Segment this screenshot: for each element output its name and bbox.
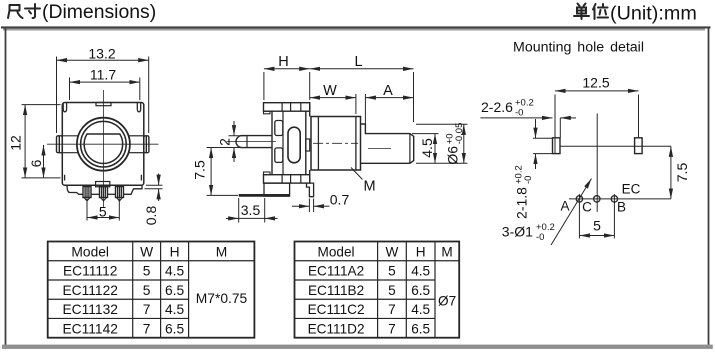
svg-text:4.5: 4.5 <box>411 264 430 279</box>
svg-text:-0: -0 <box>515 108 523 119</box>
svg-text:5: 5 <box>388 264 396 279</box>
svg-text:4.5: 4.5 <box>419 138 435 158</box>
svg-text:M: M <box>363 179 375 195</box>
svg-text:7: 7 <box>143 321 151 336</box>
svg-text:EC111D2: EC111D2 <box>308 321 365 336</box>
svg-text:6: 6 <box>28 159 44 167</box>
svg-text:4.5: 4.5 <box>165 264 185 279</box>
svg-text:(Dimensions): (Dimensions) <box>42 1 156 23</box>
svg-text:4.5: 4.5 <box>411 302 430 317</box>
svg-text:L: L <box>354 54 362 70</box>
svg-text:5: 5 <box>143 283 151 298</box>
svg-text:C: C <box>582 200 592 215</box>
svg-text:7: 7 <box>388 321 396 336</box>
svg-text:7.5: 7.5 <box>674 163 690 183</box>
svg-text:13.2: 13.2 <box>88 45 115 61</box>
svg-text:W: W <box>323 83 337 99</box>
svg-text:EC11122: EC11122 <box>62 283 117 298</box>
svg-text:-0: -0 <box>536 232 544 243</box>
svg-text:3-Ø1: 3-Ø1 <box>502 224 533 240</box>
svg-text:7: 7 <box>143 302 151 317</box>
svg-text:W: W <box>386 244 399 259</box>
svg-text:EC111A2: EC111A2 <box>308 264 364 279</box>
svg-text:EC111C2: EC111C2 <box>308 302 365 317</box>
svg-text:5: 5 <box>388 283 396 298</box>
svg-text:A: A <box>560 199 569 214</box>
svg-text:(Unit):mm: (Unit):mm <box>610 2 697 24</box>
svg-text:Ø6: Ø6 <box>445 146 461 165</box>
svg-text:5: 5 <box>593 218 601 234</box>
svg-text:M: M <box>441 244 452 259</box>
svg-text:12.5: 12.5 <box>582 75 609 91</box>
svg-text:-0: -0 <box>523 176 534 184</box>
svg-text:2-1.8: 2-1.8 <box>514 187 530 219</box>
svg-text:5: 5 <box>143 264 151 279</box>
svg-text:6.5: 6.5 <box>165 283 185 298</box>
svg-text:11.7: 11.7 <box>90 67 116 83</box>
svg-text:0.8: 0.8 <box>143 206 159 226</box>
svg-text:-0.05: -0.05 <box>454 123 465 145</box>
svg-text:EC: EC <box>622 182 641 197</box>
svg-text:A: A <box>383 83 393 99</box>
svg-text:EC11142: EC11142 <box>62 321 117 336</box>
svg-text:EC111B2: EC111B2 <box>308 283 364 298</box>
svg-text:6.5: 6.5 <box>411 321 430 336</box>
svg-text:6.5: 6.5 <box>165 321 185 336</box>
svg-text:2-2.6: 2-2.6 <box>481 99 513 115</box>
svg-text:H: H <box>416 244 426 259</box>
svg-text:H: H <box>278 54 288 70</box>
svg-text:4.5: 4.5 <box>165 302 185 317</box>
svg-text:6.5: 6.5 <box>411 283 430 298</box>
svg-text:EC11132: EC11132 <box>62 302 117 317</box>
svg-text:EC11112: EC11112 <box>63 264 117 279</box>
svg-text:Mounting hole detail: Mounting hole detail <box>513 40 644 56</box>
svg-text:Model: Model <box>71 244 109 259</box>
svg-text:B: B <box>617 200 626 215</box>
svg-text:7.5: 7.5 <box>192 160 208 180</box>
svg-text:Ø7: Ø7 <box>438 294 456 309</box>
svg-text:Model: Model <box>318 244 355 259</box>
svg-text:12: 12 <box>8 135 24 151</box>
svg-text:M7*0.75: M7*0.75 <box>196 291 248 306</box>
svg-text:0.7: 0.7 <box>330 192 350 208</box>
svg-text:H: H <box>170 244 180 259</box>
svg-text:W: W <box>140 244 153 259</box>
svg-text:M: M <box>216 244 228 259</box>
svg-text:7: 7 <box>388 302 396 317</box>
svg-text:5: 5 <box>99 204 107 220</box>
svg-text:3.5: 3.5 <box>241 202 261 218</box>
svg-text:2: 2 <box>217 138 233 146</box>
